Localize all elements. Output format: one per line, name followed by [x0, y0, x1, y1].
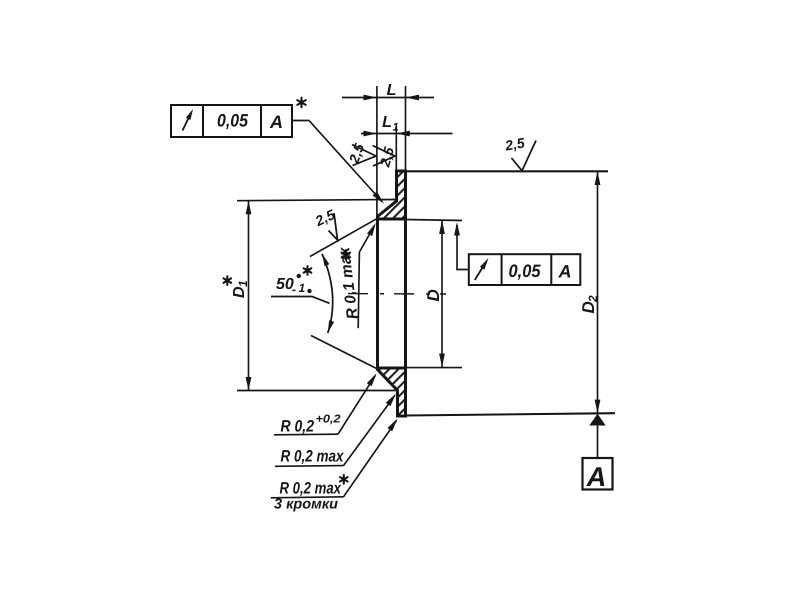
svg-text:1: 1	[392, 122, 398, 134]
svg-text:A: A	[586, 462, 607, 492]
svg-text:2,5: 2,5	[345, 141, 367, 166]
svg-text:1: 1	[236, 280, 250, 287]
svg-text:R 0,2: R 0,2	[281, 418, 315, 436]
svg-text:2: 2	[586, 295, 600, 303]
svg-text:R 0,2 max: R 0,2 max	[281, 448, 345, 466]
svg-text:3 кромки: 3 кромки	[274, 497, 338, 513]
svg-text:R 0,2 max: R 0,2 max	[280, 480, 342, 498]
svg-text:A: A	[558, 262, 572, 282]
svg-text:0,05: 0,05	[509, 261, 542, 281]
svg-text:1: 1	[299, 281, 306, 295]
svg-text:2,5: 2,5	[312, 206, 338, 229]
svg-text:D: D	[579, 301, 598, 313]
svg-text:D: D	[424, 289, 443, 301]
svg-text:-: -	[292, 283, 296, 297]
svg-text:0,05: 0,05	[217, 111, 249, 131]
svg-text:+0,2: +0,2	[316, 414, 342, 426]
svg-text:2,5: 2,5	[503, 134, 526, 153]
svg-text:L: L	[387, 82, 397, 99]
svg-text:A: A	[269, 112, 283, 132]
svg-text:L: L	[382, 114, 392, 131]
